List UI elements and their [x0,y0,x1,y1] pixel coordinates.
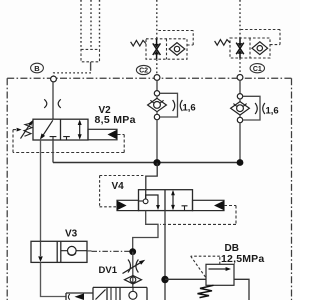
relief valve DB body [206,264,234,285]
node [154,114,159,119]
check valve below DV1 [125,276,142,284]
junction DB [161,276,168,283]
C1 block spring [215,40,230,46]
C1 block pilot bracket (dashed) [240,30,280,45]
wire V3 down to bottom valve [41,262,67,296]
svg-text:1,6: 1,6 [183,102,196,113]
bottom valve middle marks [111,287,116,300]
V4 right pilot line (dashed) [160,206,236,225]
wire orifice to V2 top [52,99,54,119]
node C1 port circle [237,75,243,81]
orifice 1,6 symbol [255,103,265,114]
wire cylinder to node B (dotted) [54,73,92,76]
svg-text:C2: C2 [139,68,148,75]
cylinder (dashed, top-left) [81,0,100,49]
orifice above V2 [44,99,61,108]
bottom valve left position: diagonal [96,290,106,300]
node B port circle [51,76,57,82]
node [154,91,159,96]
wire C1 branch to rail [239,123,241,163]
DB spring [198,285,214,297]
node [237,117,242,122]
wire junction through DV1 [132,252,134,288]
V2 pilot line (dashed loop) [13,130,124,153]
orifice bypass C2 [160,93,178,117]
V2 right position: vertical flow path with arrows [79,121,81,138]
boundary frame (dash-dot) [7,78,291,300]
node C1 label [250,64,264,73]
V2 left position: diagonal arrow [43,120,53,135]
junction rail/C2 [153,159,160,166]
V2 spring with arrow (left, adjustable) [24,123,33,136]
V3 pilot line to DV1 (dash-dot) [87,250,92,252]
C2 block pilot bracket (dashed) [157,31,193,46]
V2 left position: blocked port T [50,137,57,140]
wire B to V2 [52,82,54,99]
junction DV1 [129,248,136,255]
C2 block spring [131,40,146,46]
C2 block closed position X [153,39,161,59]
V3 right position: check valve [61,250,87,252]
svg-text:8,5 MPa: 8,5 MPa [95,114,136,126]
node C2 label [136,65,150,74]
wire V2 to V3 (left long line) [40,140,42,241]
V2 pilot actuator (right) [88,129,117,140]
svg-text:B: B [34,64,40,73]
V4 left position: orifice circle and path [139,200,144,202]
C1 block closed position X [236,38,244,58]
V4 pilot actuator (left) [117,200,139,210]
pilot valve block C1 (dashed, top right) [239,0,241,74]
node [237,94,242,99]
bottom valve body (cut off) [93,287,147,300]
check valve C1 branch [239,99,241,102]
svg-text:V4: V4 [112,181,125,192]
wire V4 left port down to DV1 [133,211,158,249]
wire V4 to DB/tank (main down line) [164,211,166,300]
svg-text:C1: C1 [253,66,262,73]
wire cylinder rod down [90,62,92,71]
throttle DV1 (adjustable) [128,260,138,273]
wire C2 branch to rail [156,120,158,163]
V4 pilot actuator (right) [193,200,225,210]
svg-text:12,5MPa: 12,5MPa [221,253,264,265]
wire pressure rail [53,162,240,164]
valve V4 body [139,190,193,211]
V4 right position: double arrow [172,192,174,209]
C1 block check valve position [252,42,268,55]
node B label [31,63,44,73]
wire V2 bottom port to pressure rail [52,140,54,163]
pilot valve block C2 (dashed, top) [156,0,158,75]
C2 block check valve position [169,43,185,56]
bottom valve check ball [132,287,134,291]
V4 right position: blocked port T [182,206,188,211]
C1 branch: wire node to check valve [239,80,241,93]
V3 left position: pass with arrow [40,241,42,256]
wire junction to DB [165,278,206,280]
orifice 1,6 symbol [173,100,183,111]
svg-text:1,6: 1,6 [266,105,279,116]
V4 enclosure (dashed) [100,176,144,207]
valve V2 body [33,119,88,140]
C2 branch: wire node to check valve [156,80,158,90]
junction rail/C1 [237,159,244,166]
orifice bypass C1 [243,96,260,120]
svg-text:V3: V3 [65,229,78,240]
node C2 port circle [154,75,160,81]
check valve C2 branch [156,96,158,99]
DB pilot line (dashed) [191,256,220,278]
bottom valve left cap [66,293,93,300]
wire rail to V4 (step) [146,163,157,190]
svg-text:DV1: DV1 [99,265,118,276]
V2 right position: blocked port T [63,137,70,140]
valve V3 body [31,241,87,262]
cylinder piston box [81,49,100,61]
wire DB outlet [234,279,249,300]
DB flow arrow [209,268,227,270]
